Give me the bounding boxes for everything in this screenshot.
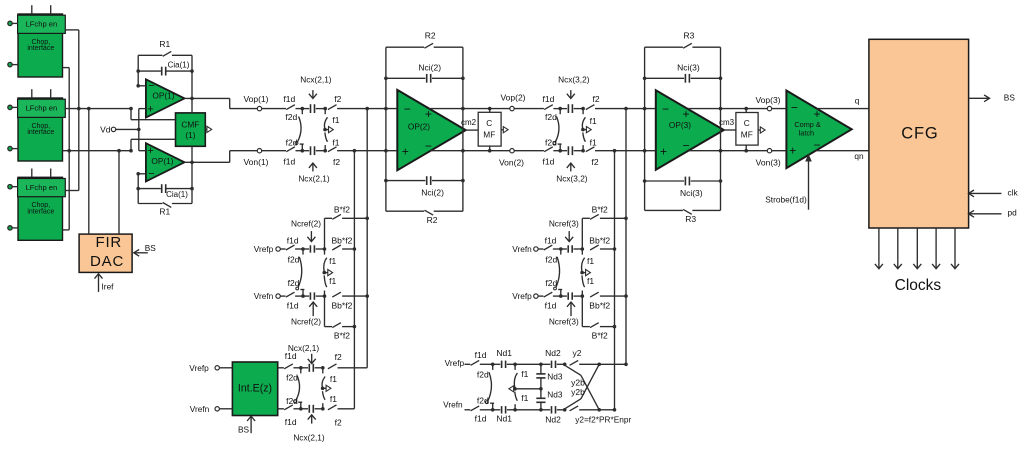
svg-text:Nd1: Nd1 (496, 348, 512, 358)
svg-text:R1: R1 (159, 207, 170, 217)
svg-text:y2=f2*PR*Enpr: y2=f2*PR*Enpr (575, 415, 631, 425)
svg-text:Vop(2): Vop(2) (500, 92, 525, 102)
svg-text:−: − (148, 168, 154, 180)
svg-text:f2d: f2d (286, 138, 298, 148)
svg-text:Ncx(3,2): Ncx(3,2) (556, 174, 588, 184)
svg-text:f1: f1 (587, 256, 594, 266)
svg-text:f1d: f1d (283, 157, 295, 167)
svg-text:f1d: f1d (545, 300, 557, 310)
svg-text:DAC: DAC (90, 253, 124, 270)
svg-text:Ncx(2,1): Ncx(2,1) (300, 74, 332, 84)
svg-text:f1d: f1d (542, 157, 554, 167)
svg-text:Vrefn: Vrefn (190, 404, 210, 414)
svg-text:f1: f1 (330, 374, 337, 384)
svg-text:B*f2: B*f2 (334, 205, 350, 215)
svg-text:Nci(2): Nci(2) (421, 188, 444, 198)
svg-text:Ncref(2): Ncref(2) (291, 218, 321, 228)
svg-text:+: + (402, 145, 409, 159)
svg-text:f2d: f2d (286, 396, 298, 406)
svg-text:f1d: f1d (475, 350, 487, 360)
svg-text:Cia(1): Cia(1) (166, 190, 188, 199)
svg-text:−: − (791, 101, 798, 115)
svg-text:Vrefn: Vrefn (254, 291, 274, 301)
svg-text:y2: y2 (573, 348, 582, 358)
svg-text:f1: f1 (521, 393, 528, 403)
svg-text:f1d: f1d (287, 300, 299, 310)
svg-text:Bb*f2: Bb*f2 (332, 235, 353, 245)
svg-text:Iref: Iref (102, 282, 115, 292)
svg-text:f2: f2 (333, 157, 340, 167)
svg-text:R3: R3 (683, 31, 694, 41)
svg-text:Cia(1): Cia(1) (168, 60, 190, 69)
svg-text:MF: MF (483, 129, 495, 139)
svg-text:latch: latch (799, 129, 814, 138)
svg-text:LFchp en: LFchp en (26, 104, 58, 113)
svg-text:Nci(2): Nci(2) (418, 62, 441, 72)
svg-text:+: + (789, 144, 796, 158)
svg-text:−: − (425, 139, 432, 153)
svg-text:f1d: f1d (475, 413, 487, 423)
svg-text:cm2: cm2 (461, 118, 477, 127)
svg-text:+: + (660, 145, 667, 159)
svg-text:Vrefn: Vrefn (443, 400, 463, 410)
svg-text:LFchp en: LFchp en (26, 183, 58, 192)
svg-text:FIR: FIR (96, 234, 123, 251)
svg-text:f2: f2 (334, 94, 341, 104)
svg-text:Von(2): Von(2) (499, 158, 524, 168)
svg-text:Nd1: Nd1 (496, 413, 512, 423)
svg-text:Vrefp: Vrefp (445, 358, 465, 368)
svg-text:Nd2: Nd2 (545, 348, 561, 358)
svg-text:f1: f1 (330, 394, 337, 404)
svg-text:−: − (404, 102, 411, 116)
svg-text:LFchp en: LFchp en (26, 20, 58, 29)
svg-text:f1d: f1d (283, 94, 295, 104)
svg-text:f2d: f2d (545, 112, 557, 122)
svg-text:B*f2: B*f2 (592, 331, 608, 341)
svg-text:Ncx(2,1): Ncx(2,1) (298, 174, 330, 184)
svg-text:Nd3: Nd3 (547, 390, 563, 400)
svg-text:y2b: y2b (571, 377, 585, 387)
svg-text:f2: f2 (335, 352, 342, 362)
svg-text:pd: pd (1008, 208, 1018, 218)
svg-text:f2d: f2d (285, 112, 297, 122)
svg-text:−: − (813, 138, 820, 152)
svg-text:Nci(3): Nci(3) (680, 188, 703, 198)
svg-text:−: − (662, 102, 669, 116)
svg-text:CFG: CFG (901, 125, 938, 143)
svg-text:Bb*f2: Bb*f2 (589, 235, 610, 245)
svg-text:f2d: f2d (286, 373, 298, 383)
svg-text:+: + (813, 107, 820, 121)
svg-text:f1d: f1d (545, 235, 557, 245)
svg-text:f2d: f2d (477, 395, 489, 405)
svg-text:+: + (425, 107, 432, 121)
svg-text:Nd2: Nd2 (545, 414, 561, 424)
svg-text:BS: BS (1004, 93, 1016, 103)
svg-text:f2: f2 (592, 94, 599, 104)
svg-text:f1: f1 (590, 138, 597, 148)
svg-text:f1: f1 (329, 276, 336, 286)
svg-text:Vrefp: Vrefp (189, 363, 209, 373)
svg-text:f1: f1 (332, 138, 339, 148)
svg-text:f2: f2 (335, 417, 342, 427)
svg-text:f1: f1 (521, 369, 528, 379)
svg-text:−: − (682, 139, 689, 153)
svg-text:f2d: f2d (545, 255, 557, 265)
svg-text:interface: interface (27, 45, 54, 52)
svg-text:Int.E(z): Int.E(z) (238, 383, 272, 395)
svg-text:Von(3): Von(3) (756, 157, 781, 167)
svg-text:C: C (486, 118, 492, 128)
svg-text:CMF: CMF (181, 119, 199, 129)
svg-text:R2: R2 (427, 215, 438, 225)
svg-text:R1: R1 (159, 39, 170, 49)
svg-text:Nci(3): Nci(3) (677, 62, 700, 72)
svg-text:f1: f1 (329, 256, 336, 266)
svg-text:f2d: f2d (288, 278, 300, 288)
svg-text:Vd: Vd (100, 124, 111, 134)
svg-text:f1d: f1d (285, 417, 297, 427)
svg-text:Vop(1): Vop(1) (243, 94, 268, 104)
svg-text:interface: interface (27, 129, 54, 136)
svg-text:+: + (682, 107, 689, 121)
svg-text:Ncref(2): Ncref(2) (291, 316, 321, 326)
svg-text:OP(2): OP(2) (408, 122, 430, 132)
svg-text:interface: interface (27, 209, 54, 216)
svg-text:Bb*f2: Bb*f2 (332, 300, 353, 310)
svg-text:q: q (855, 95, 860, 105)
svg-text:C: C (744, 118, 750, 128)
svg-text:Ncx(2,1): Ncx(2,1) (293, 432, 325, 442)
svg-text:R3: R3 (685, 214, 696, 224)
svg-text:f2: f2 (591, 157, 598, 167)
svg-text:Vop(3): Vop(3) (755, 95, 780, 105)
svg-text:f2d: f2d (545, 278, 557, 288)
svg-text:Ncx(3,2): Ncx(3,2) (558, 74, 590, 84)
svg-text:Bb*f2: Bb*f2 (589, 300, 610, 310)
svg-text:Vrefp: Vrefp (512, 291, 532, 301)
svg-text:Ncref(3): Ncref(3) (549, 218, 579, 228)
svg-text:B*f2: B*f2 (334, 331, 350, 341)
svg-text:Vrefp: Vrefp (254, 244, 274, 254)
svg-text:OP(3): OP(3) (669, 120, 691, 130)
svg-text:f2d: f2d (477, 370, 489, 380)
svg-text:MF: MF (741, 129, 753, 139)
svg-text:f2d: f2d (545, 138, 557, 148)
svg-text:f1: f1 (587, 276, 594, 286)
svg-text:cm3: cm3 (719, 118, 735, 127)
svg-text:y2b: y2b (571, 387, 585, 397)
svg-text:(1): (1) (185, 130, 195, 140)
svg-text:BS: BS (238, 424, 250, 434)
svg-text:Strobe(f1d): Strobe(f1d) (765, 194, 807, 204)
svg-text:BS: BS (145, 243, 157, 253)
svg-text:f1d: f1d (542, 94, 554, 104)
svg-text:Ncref(3): Ncref(3) (549, 316, 579, 326)
svg-text:R2: R2 (425, 31, 436, 41)
svg-text:Nd3: Nd3 (547, 371, 563, 381)
svg-text:f1: f1 (332, 115, 339, 125)
svg-text:OP(1): OP(1) (152, 91, 174, 101)
svg-text:Clocks: Clocks (895, 277, 942, 294)
svg-text:f2d: f2d (288, 255, 300, 265)
svg-text:f1d: f1d (287, 235, 299, 245)
svg-text:clk: clk (1008, 188, 1019, 198)
svg-text:OP(1): OP(1) (151, 156, 173, 166)
svg-text:qn: qn (854, 151, 864, 161)
svg-text:B*f2: B*f2 (592, 205, 608, 215)
svg-text:f1: f1 (590, 116, 597, 126)
svg-text:Ncx(2,1): Ncx(2,1) (288, 343, 320, 353)
svg-text:+: + (147, 103, 153, 115)
svg-text:Vrefn: Vrefn (512, 244, 532, 254)
svg-text:Von(1): Von(1) (243, 157, 268, 167)
